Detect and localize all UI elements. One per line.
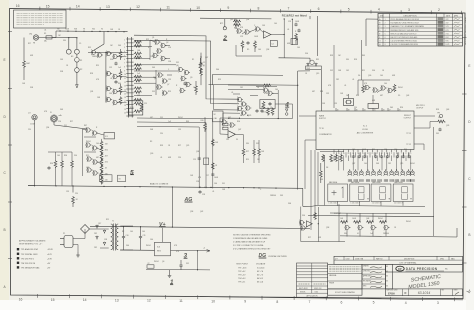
integrator wires: [228, 85, 293, 119]
svg-text:CHANGED C7 0.1 SCHEMATIC R: CHANGED C7 0.1 SCHEMATIC REDRAWN: [391, 25, 425, 28]
svg-text:R47: R47: [84, 125, 87, 127]
lower display bus: [340, 236, 457, 237]
terminal J3 mA-ohm: [51, 116, 56, 121]
svg-text:100: 100: [142, 231, 145, 233]
range divider rail wire: [88, 51, 128, 53]
svg-text:CAL: CAL: [214, 117, 217, 120]
svg-text:R12: R12: [404, 149, 407, 151]
svg-text:R11&R12 not fitted: R11&R12 not fitted: [282, 13, 307, 17]
arrow +5V: [207, 250, 211, 253]
resistor R14: [241, 41, 244, 49]
terminal J2 COM: [32, 115, 37, 120]
svg-text:4K7: 4K7: [105, 156, 108, 158]
range attenuator cluster A: [106, 51, 112, 57]
svg-text:R10: R10: [234, 28, 237, 30]
comparator op-amp A3: [228, 131, 235, 138]
wire loop F upper: [212, 74, 283, 77]
capacitor C15: [198, 157, 201, 161]
svg-text:6: 6: [318, 7, 320, 11]
svg-text:10/75: 10/75: [446, 44, 450, 46]
digit scan bus: [308, 216, 434, 217]
svg-text:+5: +5: [203, 248, 205, 250]
svg-text:6V8: 6V8: [168, 157, 171, 159]
svg-text:R26: R26: [201, 120, 204, 122]
svg-text:D8: D8: [326, 167, 328, 169]
svg-text:1350: 1350: [315, 291, 319, 293]
svg-text:IN914: IN914: [146, 245, 151, 247]
svg-text:C61: C61: [226, 139, 229, 141]
svg-text:C67: C67: [228, 117, 231, 119]
svg-text:3: 3: [437, 301, 439, 305]
svg-text:D5: D5: [398, 95, 400, 97]
svg-text:100: 100: [384, 83, 387, 85]
svg-text:R27: R27: [246, 151, 249, 153]
svg-text:Q30: Q30: [150, 153, 153, 155]
svg-text:Q65: Q65: [230, 19, 233, 21]
svg-text:16: 16: [357, 153, 359, 155]
svg-text:R31: R31: [316, 59, 319, 61]
driver emitter pad row: [348, 179, 414, 182]
wire loop D: [223, 113, 240, 122]
svg-text:1uF: 1uF: [330, 161, 333, 163]
svg-text:R1: R1: [80, 60, 82, 62]
svg-text:330: 330: [63, 40, 66, 42]
svg-text:15: 15: [51, 298, 55, 302]
svg-text:Q34: Q34: [246, 19, 249, 21]
integrator wires upper: [233, 87, 277, 96]
svg-text:100: 100: [130, 231, 133, 233]
svg-text:.01: .01: [352, 79, 354, 81]
svg-text:C42: C42: [346, 70, 349, 72]
do not scale box: [328, 289, 362, 295]
svg-text:330: 330: [246, 143, 249, 145]
date column: [386, 264, 393, 289]
svg-text:SUPPLY: SUPPLY: [319, 118, 327, 120]
svg-text:13: 13: [372, 153, 374, 155]
svg-text:WITH RESPECT TO +V :: WITH RESPECT TO +V :: [19, 243, 43, 245]
svg-text:SHEET: SHEET: [454, 290, 459, 292]
svg-text:D16: D16: [372, 70, 375, 72]
trim component stack: [223, 123, 228, 130]
svg-text:1 RESISTANCE VALUES ARE IN: 1 RESISTANCE VALUES ARE IN OHMS: [233, 237, 268, 240]
svg-text:TP5 -8.1: TP5 -8.1: [238, 281, 245, 283]
clock cluster Q30 Q31: [365, 85, 371, 91]
wire centre vertical: [317, 16, 319, 56]
svg-text:D12: D12: [330, 70, 333, 72]
spark gap E1: [66, 49, 71, 54]
transistor Q14: [245, 29, 251, 35]
svg-text:1uF: 1uF: [118, 67, 121, 69]
svg-text:P1: P1: [63, 233, 65, 235]
svg-text:1 2 3 4 5 6 7: 1 2 3 4 5 6 7: [372, 203, 381, 205]
svg-text:9/4: 9/4: [386, 281, 388, 283]
svg-text:1 2 3 4 5 6 7: 1 2 3 4 5 6 7: [329, 203, 338, 205]
svg-text:R30: R30: [356, 95, 359, 97]
svg-text:R36: R36: [237, 121, 240, 123]
svg-text:R27: R27: [178, 145, 181, 147]
svg-text:D58: D58: [30, 87, 33, 89]
svg-text:D10: D10: [74, 155, 77, 157]
ohms reference box IC4: [104, 133, 115, 139]
svg-text:B: B: [468, 233, 470, 237]
bridge rectifier D3: [81, 225, 90, 234]
svg-text:DATA PRECISION: DATA PRECISION: [406, 267, 438, 271]
svg-text:-10.8V: -10.8V: [47, 249, 54, 251]
integrator cluster Q16 Q17: [263, 87, 269, 93]
svg-text:3/72: 3/72: [446, 19, 449, 21]
svg-text:14: 14: [367, 153, 369, 155]
svg-text:63-1014: 63-1014: [418, 291, 431, 295]
svg-text:.01: .01: [160, 157, 162, 159]
svg-text:IN914: IN914: [154, 261, 159, 263]
svg-text:6: 6: [406, 153, 407, 155]
svg-text:E: E: [4, 58, 6, 62]
svg-text:6V8: 6V8: [287, 43, 290, 45]
display digit DS1: [328, 184, 348, 201]
second stage Q10-Q12 cluster: [178, 67, 191, 94]
svg-text:Q54: Q54: [46, 127, 49, 129]
svg-text:IN914: IN914: [86, 141, 91, 143]
range attenuator cluster B: [106, 71, 112, 77]
svg-text:16: 16: [124, 97, 126, 99]
svg-text:R17: R17: [70, 121, 73, 123]
IC2 bottom pins: [334, 150, 411, 153]
svg-text:R11: R11: [86, 155, 89, 157]
title block left application table: [297, 263, 328, 297]
svg-text:1: 1: [265, 35, 266, 37]
svg-text:15: 15: [124, 93, 126, 95]
svg-text:USED ON: USED ON: [314, 288, 322, 290]
svg-text:TP1 -10.6: TP1 -10.6: [238, 267, 247, 269]
svg-text:Q8: Q8: [176, 65, 178, 67]
svg-text:MODEL: MODEL: [300, 291, 306, 293]
bottom border zone ticks: [37, 294, 454, 301]
svg-text:3 IC PIN 5 CONNECTS TO D: 3 IC PIN 5 CONNECTS TO DIGITAL: [233, 244, 264, 247]
svg-text:D11: D11: [222, 183, 225, 185]
test point circle TP4: [285, 113, 288, 116]
display pin labels: [329, 203, 403, 205]
svg-text:2K2: 2K2: [336, 79, 339, 81]
strobe transistors: [299, 220, 305, 226]
svg-text:C34: C34: [168, 61, 171, 63]
svg-text:IN914: IN914: [398, 87, 403, 89]
svg-text:25: 25: [399, 109, 401, 111]
right border zone letters: [468, 64, 471, 293]
display left wires: [311, 150, 324, 230]
svg-text:8: 8: [396, 153, 397, 155]
svg-text:1: 1: [385, 19, 386, 21]
switch S1 pin numbers: [124, 40, 126, 115]
svg-text:Q52: Q52: [86, 167, 89, 169]
svg-text:7/74: 7/74: [446, 33, 449, 35]
svg-text:C5: C5: [79, 43, 81, 45]
svg-text:18: 18: [348, 153, 350, 155]
svg-text:6V8: 6V8: [137, 95, 140, 97]
svg-text:Q47: Q47: [238, 129, 241, 131]
svg-text:TP1 ANALOG GND: TP1 ANALOG GND: [21, 248, 39, 251]
svg-text:IN914: IN914: [178, 117, 183, 119]
svg-text:1uF: 1uF: [137, 73, 140, 75]
digit driver transistor row Q44-Q47: [345, 225, 390, 231]
svg-text:100: 100: [275, 89, 278, 91]
wire V+ down from analog common tee: [171, 187, 173, 227]
display bottom bus: [318, 205, 425, 206]
left border zone letters: [3, 58, 6, 289]
wire nested L run 2: [137, 122, 206, 188]
wires ohms source: [83, 129, 105, 184]
svg-text:10: 10: [211, 299, 215, 303]
V+ rail: [90, 226, 310, 228]
component value annotations: [22, 19, 449, 265]
svg-text:Q48: Q48: [366, 218, 369, 220]
svg-text:D68: D68: [150, 129, 153, 131]
svg-text:D51: D51: [152, 91, 155, 93]
svg-text:R14 WAS 4K7 CHGD PER ECO: R14 WAS 4K7 CHGD PER ECO 8127: [391, 22, 420, 25]
svg-text:6V8: 6V8: [372, 100, 375, 102]
svg-text:D64: D64: [126, 245, 129, 247]
resistor R44: [211, 139, 214, 147]
svg-text:900: 900: [92, 29, 95, 31]
company logo: [396, 266, 404, 271]
wire nested L run 1: [137, 118, 213, 188]
input terminal J1 V-ohm HI: [33, 35, 38, 40]
svg-text:4K7: 4K7: [150, 117, 153, 119]
svg-text:B5 -5.4: B5 -5.4: [257, 280, 263, 283]
wire: [55, 31, 57, 38]
wire loop B inner: [134, 40, 239, 104]
svg-text:220: 220: [160, 133, 163, 135]
svg-text:220: 220: [354, 107, 357, 109]
svg-text:C63: C63: [109, 93, 112, 95]
svg-text:R9: R9: [247, 49, 249, 51]
svg-text:1uF: 1uF: [168, 121, 171, 123]
svg-text:APPLICATION: APPLICATION: [306, 294, 318, 297]
svg-text:.01: .01: [231, 92, 233, 94]
wire input to divider bus: [39, 37, 56, 39]
wire COM down to analog common: [34, 120, 36, 186]
svg-text:R61: R61: [372, 149, 375, 151]
svg-text:TP9: TP9: [437, 113, 440, 115]
svg-text:10M: 10M: [26, 63, 30, 65]
bias resistor bank R33-R35: [54, 160, 57, 168]
svg-text:REV Ø C11 WAS 470uF 25V: REV Ø C11 WAS 470uF 25V ECO: [391, 32, 417, 35]
svg-text:330: 330: [344, 233, 347, 235]
svg-text:C38: C38: [104, 239, 107, 241]
svg-text:D6: D6: [358, 75, 360, 77]
display digit DS2: [350, 184, 370, 201]
svg-text:REVISED PER ECO 1042 AND: REVISED PER ECO 1042 AND 1055: [391, 29, 419, 32]
svg-text:APPROXIMATE VOLTAGES: APPROXIMATE VOLTAGES: [18, 239, 46, 242]
svg-text:4 W = HARNESS WHIT-E-R RO: 4 W = HARNESS WHIT-E-R ROUTING KEY: [233, 247, 271, 250]
svg-text:C44: C44: [150, 239, 153, 241]
svg-text:VΩ: VΩ: [29, 34, 32, 36]
svg-text:.01: .01: [344, 85, 346, 87]
svg-text:Q42: Q42: [200, 211, 203, 213]
svg-text:Q58: Q58: [326, 227, 329, 229]
svg-text:2K2: 2K2: [388, 163, 391, 165]
digit driver resistors: [340, 221, 348, 224]
oscillator box: [368, 104, 379, 109]
svg-text:TP 10: TP 10: [319, 128, 324, 130]
digit driver wires: [330, 213, 420, 237]
resistor R10: [233, 24, 241, 27]
svg-text:E: E: [468, 64, 470, 68]
svg-text:29: 29: [383, 109, 385, 111]
svg-text:F: F: [379, 37, 380, 39]
svg-text:17: 17: [124, 101, 126, 103]
svg-text:C11: C11: [143, 235, 146, 237]
svg-text:9: 9: [244, 300, 246, 304]
capacitor C18: [198, 190, 201, 194]
svg-text:31: 31: [374, 109, 376, 111]
svg-text:220: 220: [178, 157, 181, 159]
display left resistor: [319, 170, 322, 178]
analog common corner down: [302, 188, 304, 206]
switch S1 contact ticks: [126, 39, 133, 116]
svg-text:C28: C28: [196, 181, 199, 183]
resistor R13: [23, 60, 26, 68]
svg-text:40: 40: [337, 109, 339, 111]
svg-text:16: 16: [16, 4, 20, 8]
svg-text:220: 220: [28, 129, 31, 131]
ground symbol power: [76, 255, 80, 257]
svg-text:D21: D21: [186, 263, 189, 265]
resistor R45: [211, 162, 214, 170]
svg-text:B: B: [4, 228, 6, 232]
capacitor C16: [211, 173, 214, 177]
svg-text:100: 100: [380, 75, 383, 77]
svg-text:8K2: 8K2: [105, 150, 108, 152]
wire loop A outer: [134, 35, 239, 99]
ohms current source Q22-Q29: [86, 127, 99, 176]
svg-text:2K2: 2K2: [240, 87, 243, 89]
svg-text:CHECKED: CHECKED: [363, 271, 371, 273]
svg-text:11: 11: [124, 78, 126, 80]
title block signature column: [362, 264, 386, 289]
svg-text:IN914: IN914: [406, 221, 411, 223]
svg-text:C63: C63: [322, 103, 325, 105]
range switch S1 wafer strip: [128, 37, 133, 118]
range attenuator cluster C: [106, 86, 112, 92]
range divider input transistors: [91, 50, 97, 56]
input amplifier Q1-Q5 cluster: [153, 39, 167, 61]
ohms output boxes: [100, 175, 113, 182]
svg-text:ANALOG COMMON: ANALOG COMMON: [150, 183, 169, 186]
svg-text:FINISH: FINISH: [329, 282, 334, 284]
switch section S1B box: [129, 101, 143, 115]
svg-text:C48: C48: [97, 97, 100, 99]
svg-text:-4.2V: -4.2V: [47, 253, 52, 256]
varistor RV1: [75, 58, 80, 63]
wire mA to ohms cluster: [53, 122, 55, 125]
resistors R27 R28 R29: [242, 148, 245, 156]
capacitor C12: [179, 264, 182, 268]
svg-text:Q38: Q38: [196, 151, 199, 153]
svg-text:19: 19: [124, 109, 126, 111]
range attenuator cluster D: [106, 97, 112, 103]
svg-text:6: 6: [385, 37, 386, 39]
digit common wires: [338, 201, 403, 205]
integrator input transistor column Q50-Q55: [237, 97, 251, 116]
svg-text:D31: D31: [436, 133, 439, 135]
svg-text:C4: C4: [271, 44, 273, 46]
svg-text:9/4: 9/4: [386, 286, 388, 288]
svg-text:6V8: 6V8: [318, 237, 321, 239]
svg-text:4: 4: [385, 30, 386, 32]
svg-text:C22: C22: [438, 117, 441, 119]
svg-text:OUTPUT: OUTPUT: [416, 108, 424, 110]
svg-text:Q1: Q1: [152, 37, 154, 39]
svg-text:R40 22 TO 47 PER ECO 816: R40 22 TO 47 PER ECO 8165 ADD: [391, 36, 419, 39]
strobe resistor: [314, 212, 317, 220]
svg-text:8: 8: [385, 44, 386, 46]
component column C2: [199, 62, 202, 66]
svg-text:C30: C30: [150, 56, 153, 58]
svg-text:Q6: Q6: [162, 261, 164, 263]
svg-text:C10 470 REVISED PER ECO 8: C10 470 REVISED PER ECO 8201: [391, 41, 418, 43]
svg-text:4/72: 4/72: [446, 23, 449, 25]
svg-text:5: 5: [373, 301, 375, 305]
diodes D4-D7: [96, 225, 99, 229]
svg-text:PROD RELEASE PER ECO NO 8: PROD RELEASE PER ECO NO 8103: [391, 18, 419, 21]
svg-text:20: 20: [338, 153, 340, 155]
analog common rail: [28, 186, 303, 189]
strobe wires: [301, 204, 345, 242]
svg-text:.01: .01: [287, 29, 289, 31]
svg-text:R26: R26: [400, 107, 403, 109]
svg-text:NOTES: UNLESS OTHERWISE SPE: NOTES: UNLESS OTHERWISE SPECIFIED: [233, 234, 271, 236]
svg-text:.01: .01: [212, 191, 214, 193]
arrow below 4: [285, 109, 288, 112]
svg-text:14: 14: [124, 90, 126, 92]
wire loop E: [209, 83, 298, 86]
wire op-amp to ref: [279, 57, 311, 59]
switch S1 contact resistors: [134, 41, 142, 113]
resistor R36 below rail: [72, 196, 75, 204]
IC2 pin numbers: [333, 153, 411, 155]
IC2 right pins: [414, 116, 435, 144]
svg-text:-3.9V: -3.9V: [47, 258, 52, 260]
svg-text:2K2: 2K2: [94, 233, 97, 235]
right border zone ticks: [462, 38, 467, 264]
svg-text:220: 220: [75, 193, 78, 195]
battery terminal B1: [223, 27, 226, 30]
ladder connecting wires: [117, 57, 127, 103]
svg-text:R51: R51: [246, 159, 249, 161]
display decimal points: [367, 198, 368, 199]
svg-text:REVISIONS HISTORY SHEET: REVISIONS HISTORY SHEET: [465, 16, 467, 45]
svg-text:12: 12: [376, 153, 378, 155]
attenuator capacitors: [114, 62, 117, 66]
spark gap E2: [75, 49, 80, 54]
resistor R26: [204, 123, 207, 131]
wire to table zone: [365, 19, 367, 46]
svg-text:C15: C15: [193, 159, 196, 161]
wires regulator: [146, 228, 210, 270]
resistor R16: [295, 33, 298, 41]
title lower boxes: [386, 289, 463, 296]
transistor Q13: [237, 28, 243, 34]
svg-text:100: 100: [261, 107, 264, 109]
svg-text:2K2: 2K2: [105, 162, 108, 164]
voltage regulator IC3: [155, 242, 171, 256]
svg-text:C2: C2: [203, 62, 205, 64]
svg-text:D35: D35: [280, 195, 283, 197]
arrow to analog common: [76, 85, 79, 89]
svg-text:DISPLAY: DISPLAY: [334, 212, 342, 215]
svg-text:REF: REF: [307, 68, 310, 70]
display digit DS4: [393, 184, 413, 201]
